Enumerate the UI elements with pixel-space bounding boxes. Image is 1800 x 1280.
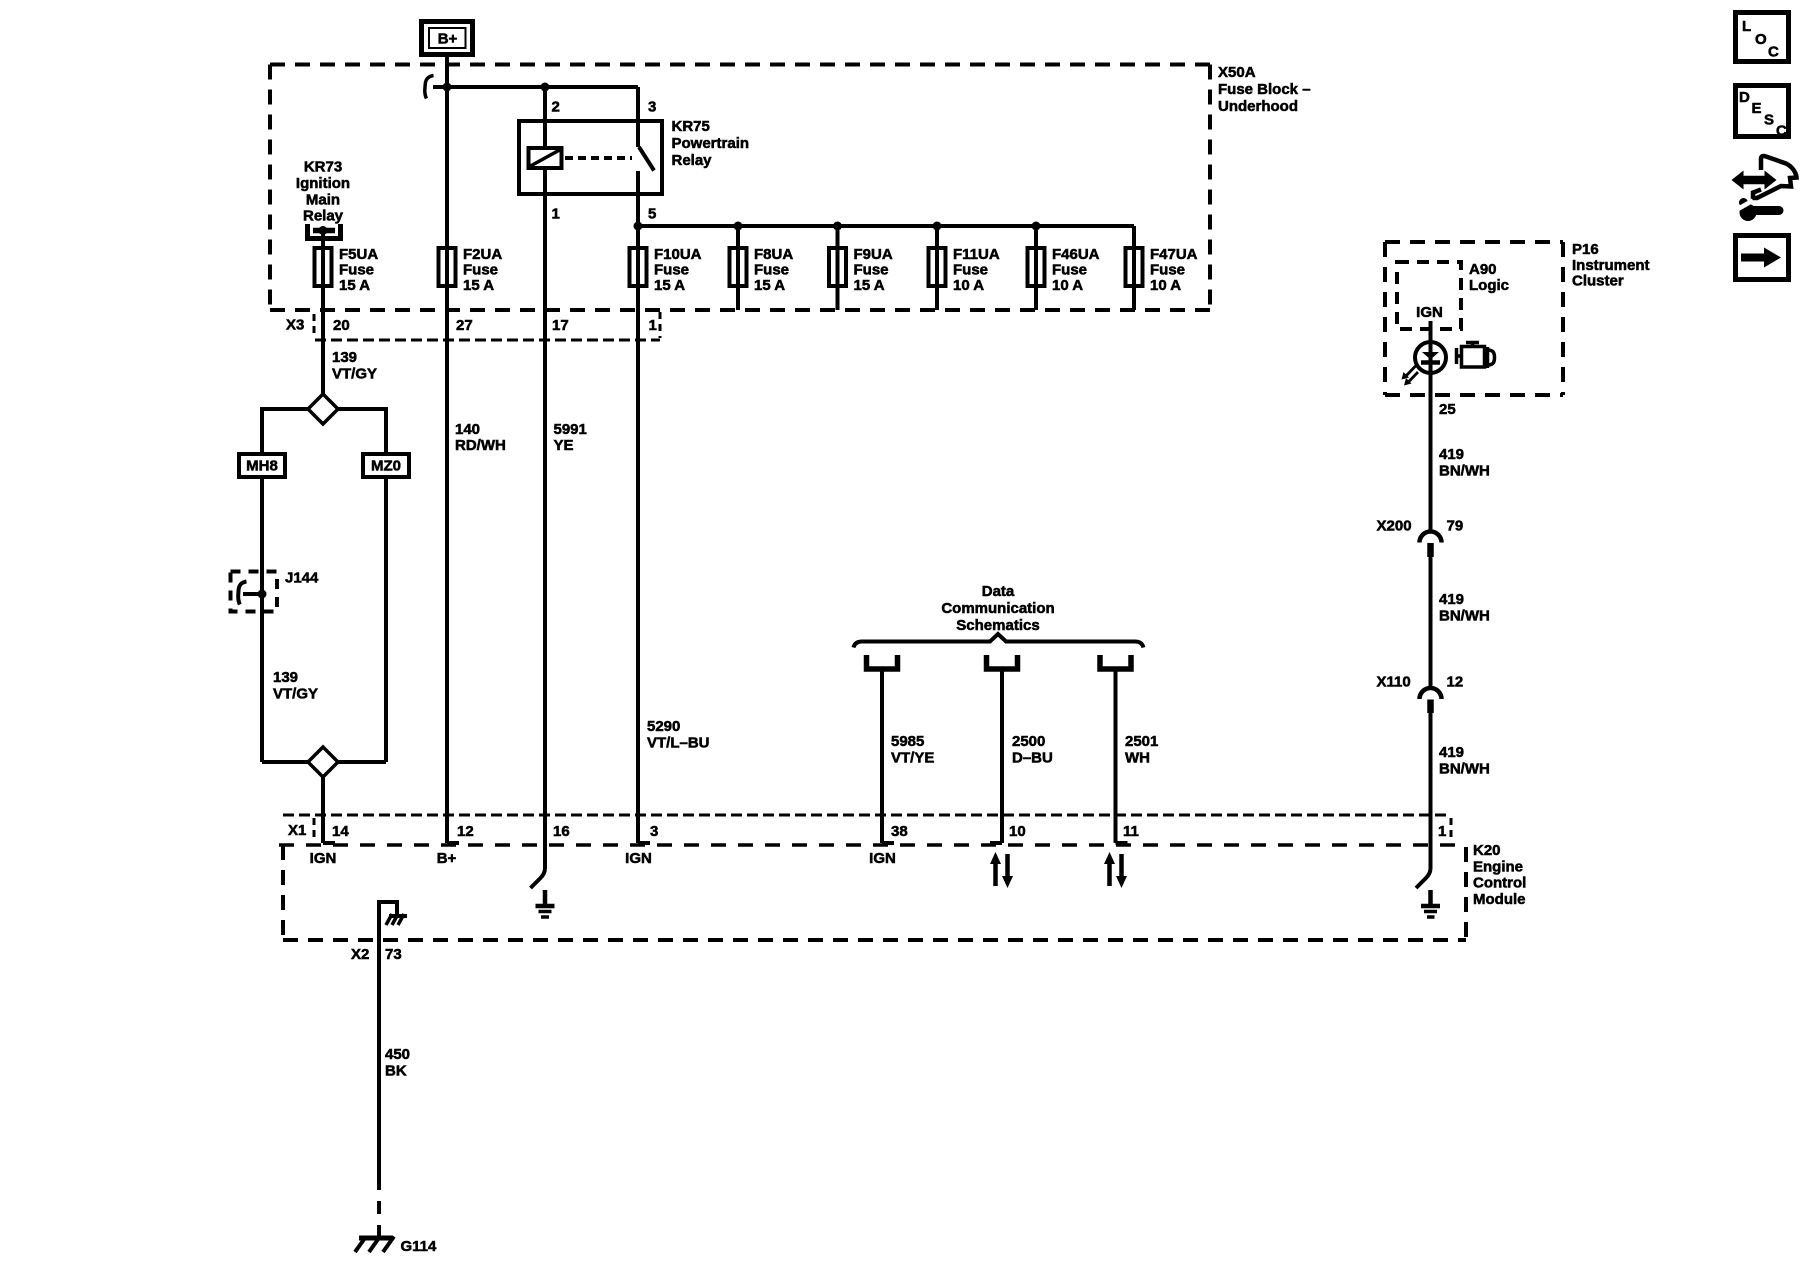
svg-text:F46UA: F46UA [1052, 246, 1100, 263]
svg-text:F8UA: F8UA [754, 246, 793, 263]
svg-text:1: 1 [1438, 823, 1446, 840]
svg-text:KR75: KR75 [672, 118, 710, 135]
svg-text:X2: X2 [351, 946, 369, 963]
svg-text:A90: A90 [1469, 261, 1497, 278]
svg-text:G114: G114 [401, 1238, 438, 1255]
svg-text:16: 16 [553, 823, 570, 840]
svg-text:5: 5 [648, 206, 656, 223]
svg-text:F2UA: F2UA [463, 246, 502, 263]
svg-text:IGN: IGN [1416, 304, 1443, 321]
svg-text:Powertrain: Powertrain [672, 135, 750, 152]
svg-text:IGN: IGN [869, 850, 896, 867]
svg-text:X3: X3 [286, 317, 304, 334]
svg-text:Module: Module [1473, 891, 1526, 908]
svg-text:F10UA: F10UA [654, 246, 702, 263]
svg-text:Communication: Communication [941, 600, 1054, 617]
svg-text:Fuse: Fuse [1052, 262, 1087, 279]
svg-text:IGN: IGN [310, 850, 337, 867]
svg-text:Instrument: Instrument [1572, 257, 1650, 274]
svg-text:15 A: 15 A [754, 277, 785, 294]
svg-text:Fuse: Fuse [339, 262, 374, 279]
svg-text:11: 11 [1123, 823, 1139, 840]
svg-text:140: 140 [455, 421, 480, 438]
svg-text:20: 20 [333, 317, 350, 334]
svg-text:X200: X200 [1377, 518, 1412, 535]
svg-text:Fuse: Fuse [1150, 262, 1185, 279]
svg-text:B+: B+ [438, 31, 458, 48]
svg-text:WH: WH [1125, 750, 1150, 767]
svg-text:YE: YE [554, 437, 574, 454]
svg-text:419: 419 [1439, 446, 1464, 463]
svg-text:Relay: Relay [672, 152, 713, 169]
svg-text:5290: 5290 [647, 718, 680, 735]
svg-text:J144: J144 [285, 570, 319, 587]
svg-text:B+: B+ [437, 850, 457, 867]
svg-text:VT/GY: VT/GY [332, 365, 377, 382]
svg-text:3: 3 [650, 823, 658, 840]
svg-text:BK: BK [385, 1063, 407, 1080]
svg-text:10: 10 [1009, 823, 1026, 840]
svg-text:D: D [1739, 89, 1750, 106]
svg-text:Control: Control [1473, 875, 1526, 892]
svg-text:Fuse: Fuse [953, 262, 988, 279]
svg-text:C: C [1776, 123, 1787, 140]
svg-text:2500: 2500 [1012, 733, 1045, 750]
svg-text:Cluster: Cluster [1572, 273, 1624, 290]
svg-text:1: 1 [552, 206, 560, 223]
svg-text:139: 139 [332, 349, 357, 366]
svg-text:5985: 5985 [891, 733, 924, 750]
svg-text:MH8: MH8 [246, 458, 278, 475]
svg-text:Data: Data [982, 583, 1015, 600]
svg-text:Fuse: Fuse [463, 262, 498, 279]
svg-text:12: 12 [457, 823, 474, 840]
svg-text:73: 73 [385, 946, 402, 963]
svg-text:VT/YE: VT/YE [891, 750, 934, 767]
svg-text:Relay: Relay [303, 208, 344, 225]
svg-text:MZ0: MZ0 [371, 458, 401, 475]
svg-text:Fuse: Fuse [654, 262, 689, 279]
svg-text:X110: X110 [1377, 674, 1411, 691]
svg-text:419: 419 [1439, 591, 1464, 608]
svg-text:S: S [1764, 112, 1774, 129]
svg-text:KR73: KR73 [304, 159, 342, 176]
svg-text:X50A: X50A [1218, 64, 1256, 81]
svg-text:450: 450 [385, 1046, 410, 1063]
svg-text:K20: K20 [1473, 842, 1501, 859]
svg-text:O: O [1755, 31, 1767, 48]
svg-text:BN/WH: BN/WH [1439, 607, 1490, 624]
svg-text:5991: 5991 [554, 421, 587, 438]
svg-text:F11UA: F11UA [953, 246, 1000, 263]
svg-text:139: 139 [273, 669, 298, 686]
svg-text:17: 17 [552, 317, 569, 334]
svg-text:BN/WH: BN/WH [1439, 462, 1490, 479]
svg-text:C: C [1768, 44, 1779, 61]
svg-text:X1: X1 [288, 822, 306, 839]
svg-text:10 A: 10 A [1150, 277, 1181, 294]
svg-text:Main: Main [306, 191, 340, 208]
svg-text:L: L [1742, 18, 1751, 35]
svg-text:D–BU: D–BU [1012, 750, 1053, 767]
svg-text:IGN: IGN [625, 850, 652, 867]
svg-text:E: E [1752, 100, 1762, 117]
svg-text:27: 27 [456, 317, 473, 334]
svg-text:25: 25 [1439, 401, 1456, 418]
svg-text:10 A: 10 A [1052, 277, 1083, 294]
svg-text:Fuse Block –: Fuse Block – [1218, 81, 1311, 98]
svg-text:2: 2 [552, 99, 560, 116]
svg-text:Fuse: Fuse [754, 262, 789, 279]
svg-text:F47UA: F47UA [1150, 246, 1198, 263]
svg-text:Logic: Logic [1469, 277, 1509, 294]
svg-text:79: 79 [1447, 518, 1464, 535]
svg-text:BN/WH: BN/WH [1439, 760, 1490, 777]
svg-text:419: 419 [1439, 744, 1464, 761]
svg-text:Underhood: Underhood [1218, 98, 1298, 115]
svg-text:15 A: 15 A [654, 277, 685, 294]
svg-text:12: 12 [1447, 674, 1464, 691]
svg-text:Engine: Engine [1473, 858, 1523, 875]
svg-text:Fuse: Fuse [854, 262, 889, 279]
svg-text:14: 14 [332, 823, 349, 840]
svg-text:1: 1 [649, 317, 657, 334]
svg-text:15 A: 15 A [339, 277, 370, 294]
svg-text:15 A: 15 A [854, 277, 885, 294]
svg-text:15 A: 15 A [463, 277, 494, 294]
svg-text:VT/L–BU: VT/L–BU [647, 735, 710, 752]
svg-text:Ignition: Ignition [296, 175, 350, 192]
svg-text:P16: P16 [1572, 241, 1599, 258]
svg-text:F9UA: F9UA [854, 246, 893, 263]
svg-text:2501: 2501 [1125, 733, 1158, 750]
svg-text:3: 3 [648, 99, 656, 116]
svg-text:VT/GY: VT/GY [273, 685, 318, 702]
svg-text:38: 38 [891, 823, 908, 840]
svg-text:10 A: 10 A [953, 277, 984, 294]
svg-text:RD/WH: RD/WH [455, 437, 506, 454]
svg-text:F5UA: F5UA [339, 246, 378, 263]
